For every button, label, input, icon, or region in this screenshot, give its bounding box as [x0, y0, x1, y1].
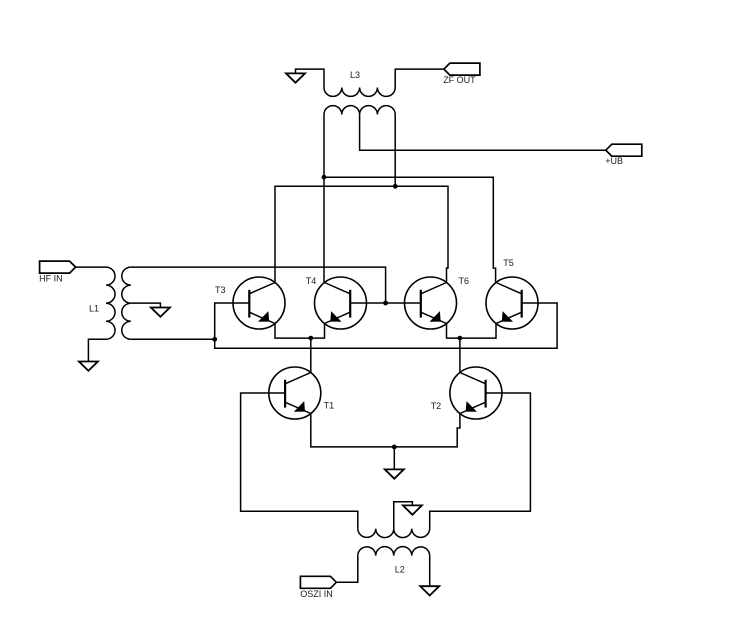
- inductor L2 top winding: [358, 529, 430, 538]
- transistor T5: [486, 277, 538, 329]
- label T1: [324, 400, 335, 410]
- wire L1 secondary top to T4/T6 base node: [131, 267, 386, 303]
- svg-text:+UB: +UB: [605, 156, 623, 166]
- transistor T1: [269, 367, 321, 419]
- svg-text:T4: T4: [306, 276, 317, 286]
- inductor L3 bottom winding: [324, 106, 395, 115]
- wire left emitter node to T1 collector: [310, 338, 312, 372]
- wire T1 base down to L2 primary left: [241, 393, 358, 529]
- wire right emitter node to T2 collector: [459, 338, 461, 372]
- wire L3 bottom winding center tap to +UB: [360, 115, 606, 151]
- svg-text:ZF OUT: ZF OUT: [443, 75, 476, 85]
- label L3: [350, 70, 360, 80]
- port ZF OUT connector: [444, 63, 480, 75]
- ground at L2 bottom winding right lead: [420, 556, 439, 596]
- junction center emitter node: [392, 445, 397, 450]
- transistor T2: [450, 367, 502, 419]
- port OSZI IN connector: [300, 576, 336, 588]
- junction node A: [322, 175, 327, 180]
- junction right emitter node: [458, 336, 463, 341]
- svg-text:T3: T3: [215, 285, 226, 295]
- transistor T4: [315, 277, 367, 329]
- junction T3 base / L1 secondary bottom: [212, 337, 217, 342]
- label T4: [306, 276, 317, 286]
- wire HF IN to L1 primary top: [76, 266, 106, 268]
- svg-text:L3: L3: [350, 70, 360, 80]
- wire L1 secondary center tap to ground: [131, 303, 161, 307]
- svg-text:OSZI IN: OSZI IN: [300, 589, 333, 599]
- wire T1 emitter to center bus: [311, 414, 395, 447]
- inductor L1 primary winding: [106, 267, 115, 339]
- label T5: [503, 258, 514, 268]
- junction left emitter node: [308, 336, 313, 341]
- wire L1 secondary bottom to T3 base node: [131, 338, 215, 340]
- wire L3 bottom winding left lead to node A: [323, 115, 325, 178]
- wire T2 base down to L2 primary right: [430, 393, 531, 529]
- wire L3 top winding left lead to ground: [296, 69, 325, 87]
- label T6: [459, 276, 470, 286]
- label L2: [395, 564, 405, 574]
- wire L2 bottom winding left lead to OSZI IN: [336, 556, 357, 583]
- ground at L1 secondary center tap: [151, 308, 170, 317]
- label T3: [215, 285, 226, 295]
- ground at L2 top winding center tap: [403, 505, 422, 514]
- transistor T6: [405, 277, 457, 329]
- wire L3 top winding right lead to ZF OUT: [395, 69, 444, 87]
- label HF IN: [39, 273, 63, 283]
- svg-text:HF IN: HF IN: [39, 273, 63, 283]
- wire T4 base to T6 base: [350, 302, 421, 304]
- label ZF OUT: [443, 75, 476, 85]
- wire T3 base / cross-coupling line to T5 base: [215, 303, 557, 348]
- label T2: [431, 401, 442, 411]
- wire L3 bottom winding right lead to node B: [394, 115, 396, 187]
- port +UB connector: [606, 144, 642, 156]
- junction node B: [393, 184, 398, 189]
- label L1: [89, 303, 99, 313]
- wire node B rail T3 collector to T6 collector: [275, 186, 448, 282]
- transistor T3: [233, 277, 285, 329]
- svg-text:T1: T1: [324, 400, 335, 410]
- svg-text:T2: T2: [431, 401, 442, 411]
- port HF IN connector: [40, 261, 76, 273]
- svg-text:T6: T6: [459, 276, 470, 286]
- label +UB: [605, 156, 623, 166]
- wire T2 emitter to center bus: [394, 414, 460, 447]
- wire T4 collector to node A: [323, 177, 325, 282]
- svg-text:T5: T5: [503, 258, 514, 268]
- wire left emitter bus (T3/T4 emitters): [275, 324, 325, 339]
- wire L2 top winding center tap to ground: [394, 502, 413, 529]
- wire L1 primary bottom to ground: [79, 339, 106, 371]
- inductor L2 bottom winding: [358, 547, 430, 556]
- wire right emitter bus (T6/T5 emitters): [447, 324, 497, 339]
- svg-text:L1: L1: [89, 303, 99, 313]
- junction T4/T6 base node: [383, 301, 388, 306]
- ground near L3 top winding left lead: [286, 73, 305, 82]
- inductor L1 secondary winding: [122, 267, 131, 339]
- svg-text:L2: L2: [395, 564, 405, 574]
- inductor L3 top winding: [324, 88, 395, 97]
- wire node A rail to T5 collector: [324, 177, 496, 283]
- ground below T1/T2 emitters: [385, 447, 404, 479]
- label OSZI IN: [300, 589, 333, 599]
